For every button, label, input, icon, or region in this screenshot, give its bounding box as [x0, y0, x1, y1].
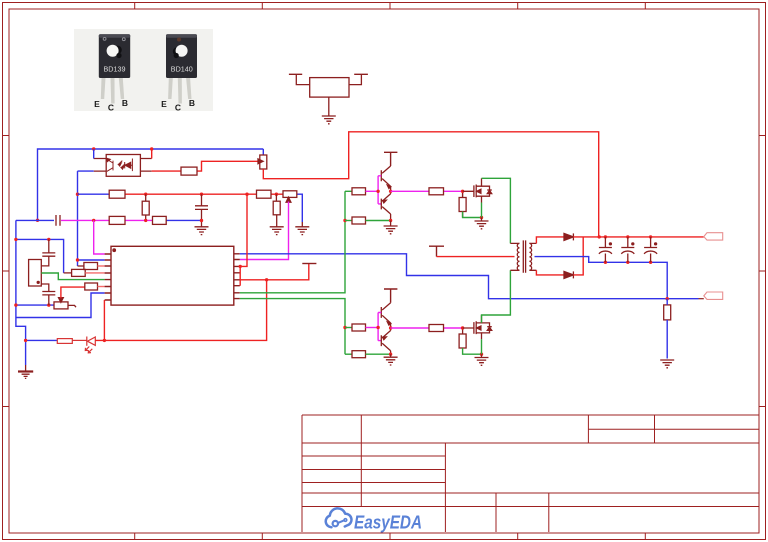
node green junctions — [343, 219, 346, 329]
svg-text:E: E — [94, 99, 100, 109]
wire green J1 to IC — [41, 273, 104, 280]
power stub VCC4 — [384, 289, 397, 303]
photo BD139 — [94, 34, 130, 112]
mosfet M2 — [463, 315, 492, 339]
ground M2 source — [481, 354, 483, 357]
node output junctions — [598, 235, 669, 300]
node L1 junctions — [144, 193, 278, 196]
resistor R17 — [181, 167, 197, 175]
capacitor C5 polar — [599, 237, 612, 262]
wire red D2 join rail — [573, 237, 583, 275]
power stub primary tap — [429, 246, 444, 256]
resistor R16 — [345, 351, 391, 358]
wire blue opto cathode to IC — [78, 171, 105, 266]
wire net L2 — [16, 219, 54, 221]
ground Q2 — [390, 221, 392, 227]
resistor R6 — [153, 216, 167, 224]
transistor Q3 — [381, 303, 391, 328]
wire magenta base rail B — [378, 313, 381, 341]
photo BD140 — [161, 34, 197, 112]
wire blue opto anode — [93, 149, 95, 159]
resistor R19 vertical — [459, 328, 466, 348]
resistor R7 to IC pin4 — [64, 269, 105, 276]
wire green IC pin gate B — [240, 299, 345, 355]
resistor R14 — [345, 324, 378, 331]
wire magenta gate A — [391, 190, 463, 192]
resistor R10 — [57, 339, 72, 344]
ground L1 right — [295, 227, 309, 235]
wire blue left bus — [16, 220, 105, 317]
ground M1 source — [481, 218, 483, 222]
photo panel — [74, 29, 213, 111]
ground C1 — [195, 227, 209, 235]
ground Q4 — [390, 354, 392, 357]
wire red LED line to IC right — [95, 280, 266, 341]
wire blue VCC rail — [38, 149, 264, 220]
capacitor C3 — [42, 239, 55, 256]
wire red opto emitter — [152, 161, 258, 171]
port VOUT+ — [704, 233, 723, 240]
EasyEDA logo — [326, 508, 422, 532]
ground R4 — [270, 227, 284, 235]
node IC right junctions — [239, 265, 269, 282]
resistor R9 to IC pin6 — [85, 283, 105, 290]
wire red RV3 wiper to R9 — [61, 287, 85, 298]
resistor R1 — [109, 190, 125, 198]
transistor Q1 — [381, 166, 391, 191]
wire red output rail — [573, 236, 703, 238]
wire red secondary bottom to D2 — [536, 270, 564, 275]
component U3 regulator top — [289, 74, 368, 116]
wire red opto collector — [151, 149, 153, 159]
svg-text:E: E — [161, 99, 167, 109]
node opto cathode junctions — [76, 193, 79, 262]
potentiometer RV1 — [258, 155, 267, 169]
resistor R18 — [429, 325, 444, 332]
wire green IC pin gate A — [240, 191, 345, 292]
node gate A junctions — [461, 190, 483, 220]
TITLE BLOCK — [302, 415, 759, 532]
node L2 junctions — [92, 219, 203, 223]
ground LED (large) — [18, 372, 33, 379]
node LED junctions — [24, 339, 106, 342]
resistor R4 vertical — [273, 194, 280, 227]
wire magenta RV2 wiper to IC pin — [240, 202, 289, 260]
LED D3 — [72, 337, 95, 353]
transformer T1 — [510, 240, 536, 272]
capacitor C1 at L1 — [195, 194, 208, 227]
wire blue output resistor — [666, 299, 668, 359]
wire magenta gate B — [391, 327, 463, 329]
wire green M1 source — [481, 203, 483, 218]
svg-text:B: B — [189, 98, 195, 108]
resistor R12 — [345, 217, 391, 224]
wire red feedback loop — [263, 132, 598, 237]
transistor Q4 — [381, 328, 390, 354]
port VOUT- — [704, 292, 723, 299]
capacitor C4 — [42, 292, 55, 306]
resistor R15 vertical — [459, 191, 466, 217]
wire red primary center tap — [437, 256, 515, 258]
resistor R2 — [257, 190, 272, 198]
wire net L1 — [78, 193, 110, 195]
diode D1 — [564, 233, 573, 240]
svg-text:BD140: BD140 — [171, 65, 193, 74]
capacitor C6 polar — [621, 237, 634, 262]
diode D2 — [564, 271, 573, 278]
potentiometer RV3 — [54, 298, 76, 309]
power stub VCC3 — [384, 152, 397, 166]
svg-text:BD139: BD139 — [104, 65, 126, 74]
node BJT B junctions — [376, 326, 392, 356]
resistor R5 — [109, 216, 125, 224]
resistor R8 to IC pin3 — [78, 263, 105, 270]
svg-text:EasyEDA: EasyEDA — [354, 512, 422, 533]
ground output — [660, 360, 674, 368]
capacitor C2 series — [56, 215, 60, 226]
resistor R20 output — [664, 305, 671, 320]
resistor R11 — [345, 188, 378, 195]
wire green M2 source — [481, 339, 483, 354]
wire blue LED branch — [16, 318, 57, 366]
svg-text:C: C — [108, 103, 114, 113]
wire red secondary top to D1 — [536, 237, 564, 244]
wire blue port stub — [699, 298, 704, 300]
power stub VCC2 — [302, 263, 316, 265]
node left bus junctions — [14, 238, 50, 307]
potentiometer RV2 — [283, 191, 297, 202]
wire green M2 drain to transformer — [482, 270, 511, 323]
wire red IC pin11 up — [240, 194, 247, 266]
resistor R3 vertical — [142, 194, 149, 220]
capacitor C7 polar — [644, 237, 657, 262]
wire blue IC pin9 output bus — [240, 254, 699, 299]
IC U1 — [105, 246, 240, 305]
transistor Q2 — [381, 191, 390, 220]
mosfet M1 — [463, 178, 492, 202]
node rail junctions — [36, 147, 154, 222]
ground U3 — [322, 116, 336, 124]
node BJT A junctions — [376, 190, 392, 223]
wire magenta to IC pin1 — [94, 220, 105, 254]
node gate B junctions — [461, 326, 483, 356]
resistor R13 — [429, 188, 444, 195]
wire green M1 drain to transformer — [482, 178, 511, 243]
svg-text:B: B — [122, 98, 128, 108]
svg-text:C: C — [175, 103, 181, 113]
wire red IC pins 12-14 tie — [240, 264, 309, 286]
wire magenta base rail A — [378, 176, 381, 204]
optocoupler U2 — [94, 155, 152, 177]
wire red IC pin8 to LED line — [103, 300, 105, 340]
connector J1 — [29, 256, 49, 291]
wire blue secondary center tap — [535, 257, 668, 299]
